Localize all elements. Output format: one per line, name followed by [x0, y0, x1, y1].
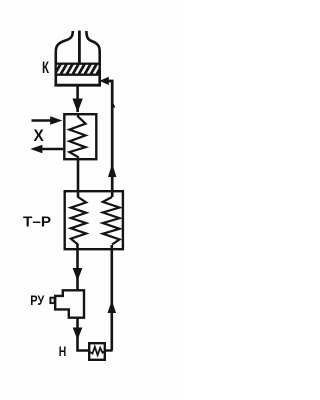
- half arrowhead artifact on riser: [112, 101, 115, 108]
- wire: return riser (bottom section up into T-P right coil): [111, 245, 114, 351]
- pump H zigzag: [89, 347, 105, 355]
- svg-text:РУ: РУ: [30, 292, 44, 308]
- arrowhead down into X: [72, 99, 82, 113]
- arrowhead down above corner: [73, 328, 83, 340]
- cooler X box: [64, 114, 96, 159]
- wire: pipe from X down into T-P left coil: [77, 158, 80, 198]
- expansion valve RU body: [55, 290, 84, 317]
- svg-text:Т–Р: Т–Р: [23, 214, 51, 231]
- arrow: coolant in (into X): [32, 119, 53, 121]
- arrowhead up on riser below T-P: [108, 301, 117, 314]
- svg-text:К: К: [42, 59, 50, 77]
- wire: compressor suction pipe (top): [78, 31, 81, 65]
- T-P left coil: [71, 197, 86, 245]
- compressor K: bottom plate: [54, 84, 101, 87]
- compressor K: hatched piston band: [56, 64, 100, 75]
- wire: return riser (T-P top up to compressor corner): [107, 81, 112, 197]
- arrowhead up on riser above T-P: [108, 164, 116, 178]
- svg-text:Н: Н: [59, 343, 66, 359]
- wire: discharge pipe from compressor down to cooler X: [76, 85, 79, 112]
- heat exchanger T-P box: [65, 191, 123, 249]
- compressor K body: right wall with bell flare: [86, 31, 99, 86]
- cooler X coil: [69, 115, 85, 160]
- valve RU stem square: [50, 298, 54, 303]
- arrow: coolant out (from X): [42, 148, 63, 150]
- arrowhead down above RU: [73, 268, 83, 281]
- wire: stub from H to return riser: [105, 349, 113, 351]
- T-P right coil: [103, 197, 120, 245]
- arrowhead left into compressor: [99, 77, 109, 85]
- wire: pipe from T-P down to valve RU: [76, 244, 79, 290]
- wire: pipe from RU down and right to pump H: [78, 318, 90, 351]
- svg-text:Х: Х: [34, 127, 44, 145]
- pump H box: [89, 343, 105, 360]
- compressor K body: left wall with bell flare: [56, 31, 73, 86]
